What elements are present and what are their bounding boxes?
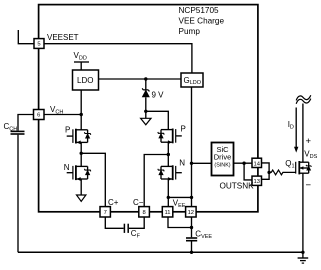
pin 8	[139, 207, 150, 217]
VDD supply bar	[74, 61, 89, 63]
svg-text:(SINK): (SINK)	[214, 163, 230, 169]
svg-text:8: 8	[142, 210, 145, 216]
node LDO/zener	[144, 77, 147, 80]
capacitor CCH	[11, 130, 25, 132]
pin 13	[252, 176, 262, 185]
break squiggle (drain supply)	[296, 95, 311, 100]
capacitor CVEE	[186, 237, 197, 239]
pin 12	[186, 207, 197, 217]
transistor Q1	[296, 161, 312, 174]
transistor N (left)	[67, 165, 91, 181]
svg-text:N: N	[179, 159, 185, 168]
svg-text:CCH: CCH	[4, 122, 18, 133]
svg-text:5: 5	[37, 42, 40, 48]
wire right midpoint to pin8	[144, 155, 168, 207]
wire pin6 to column	[44, 114, 81, 116]
svg-text:6: 6	[37, 113, 40, 119]
svg-text:9 V: 9 V	[152, 91, 165, 100]
wire P source to N drain (left)	[80, 142, 82, 167]
resistor Rg	[269, 170, 296, 175]
svg-text:−: −	[306, 180, 312, 191]
wire ground node to right P drain	[146, 111, 169, 129]
svg-text:LDO: LDO	[77, 76, 93, 85]
svg-text:11: 11	[164, 210, 170, 216]
svg-text:Drive: Drive	[214, 152, 232, 161]
svg-text:VCH: VCH	[50, 105, 63, 116]
svg-text:CVEE: CVEE	[195, 229, 212, 240]
svg-text:VEESET: VEESET	[47, 33, 79, 42]
block GLDO	[181, 73, 203, 87]
wire LDO out to GLDO	[99, 78, 182, 80]
pin 5	[34, 39, 44, 49]
wire right P source to right N drain	[167, 142, 169, 167]
wire SiC driver out to pins 14/13	[234, 162, 253, 164]
wire pin14 to gate node	[261, 163, 269, 173]
wire VEE to SiC driver	[192, 162, 212, 164]
block LDO	[73, 70, 99, 90]
svg-text:VDS: VDS	[304, 150, 317, 161]
node gate	[267, 171, 270, 174]
svg-text:ID: ID	[288, 120, 294, 131]
wire CCH to bottom rail	[17, 135, 19, 253]
svg-text:VDD: VDD	[74, 51, 87, 62]
wire CVEE to ground rail	[191, 241, 193, 252]
svg-text:Q1: Q1	[285, 159, 294, 170]
wire CF to pin8	[129, 217, 144, 228]
node C-	[167, 153, 170, 156]
svg-text:OUTSNK: OUTSNK	[220, 182, 255, 191]
svg-text:VEE Charge: VEE Charge	[179, 17, 225, 26]
svg-text:7: 7	[104, 210, 107, 216]
wire pin12 to CVEE	[191, 217, 193, 237]
svg-text:P: P	[181, 124, 186, 133]
node VEE line	[190, 196, 193, 199]
node Q1 source ground	[301, 251, 304, 254]
pin 7	[100, 207, 110, 217]
wire Q1 source to ground rail	[302, 173, 304, 252]
wire Q1 drain up to break symbol	[302, 104, 304, 163]
svg-text:+: +	[306, 136, 312, 147]
pin 11	[162, 207, 173, 217]
svg-text:Pump: Pump	[179, 27, 201, 36]
svg-text:C+: C+	[108, 198, 119, 207]
pin 6	[34, 110, 45, 120]
svg-text:CF: CF	[131, 229, 141, 240]
current arrow ID	[295, 108, 297, 149]
node VCH	[80, 113, 83, 116]
svg-text:C−: C−	[133, 198, 144, 207]
node SiC out	[242, 162, 245, 165]
pin 14	[252, 158, 262, 167]
svg-text:14: 14	[253, 161, 260, 167]
wire pin11 to CVEE node	[168, 217, 192, 228]
IC outline box NCP51705	[39, 5, 258, 212]
wire zener to ground node	[145, 97, 147, 111]
wire right N source to pin11	[167, 179, 169, 207]
wire pin7 to CF	[105, 217, 123, 228]
wire pin6 to CCH	[18, 115, 34, 131]
svg-text:VEE: VEE	[173, 199, 186, 210]
node CVEE top	[190, 226, 193, 229]
label NCP51705 title	[179, 6, 225, 36]
ground (charge pump mid)	[145, 111, 147, 118]
wire pin5 to GLDO top	[44, 44, 192, 73]
wire zener branch	[145, 79, 147, 90]
transistor P (right, mirrored)	[158, 129, 182, 145]
zener diode 9V	[142, 88, 149, 91]
wire N source to ground (left)	[80, 179, 82, 195]
ground (left N source)	[77, 195, 86, 201]
svg-text:12: 12	[188, 210, 194, 216]
wire GLDO to pin12 VEE	[191, 87, 193, 207]
wire N source node to VEE line	[168, 196, 191, 198]
node N source / VEE	[167, 196, 170, 199]
ground (power, right)	[302, 252, 304, 257]
svg-text:13: 13	[253, 179, 259, 185]
svg-text:P: P	[65, 125, 70, 134]
wire VEESET external stub	[18, 30, 34, 44]
transistor N (right, mirrored)	[158, 165, 182, 181]
wire pin13 to gate node	[261, 172, 269, 179]
transistor P (left)	[67, 129, 91, 145]
wire VDD to LDO	[80, 62, 82, 70]
svg-text:NCP51705: NCP51705	[179, 6, 220, 15]
wire LDO bottom to P drain	[80, 90, 82, 130]
block SiC Drive (SINK)	[212, 143, 234, 176]
wire left midpoint to pin7	[81, 153, 105, 206]
capacitor CF	[123, 224, 125, 233]
node C+	[80, 152, 83, 155]
node zener/ground	[144, 110, 147, 113]
svg-text:N: N	[64, 163, 70, 172]
node CVEE ground	[190, 251, 193, 254]
wire bottom ground rail	[18, 251, 303, 253]
node SiC in	[190, 162, 193, 165]
